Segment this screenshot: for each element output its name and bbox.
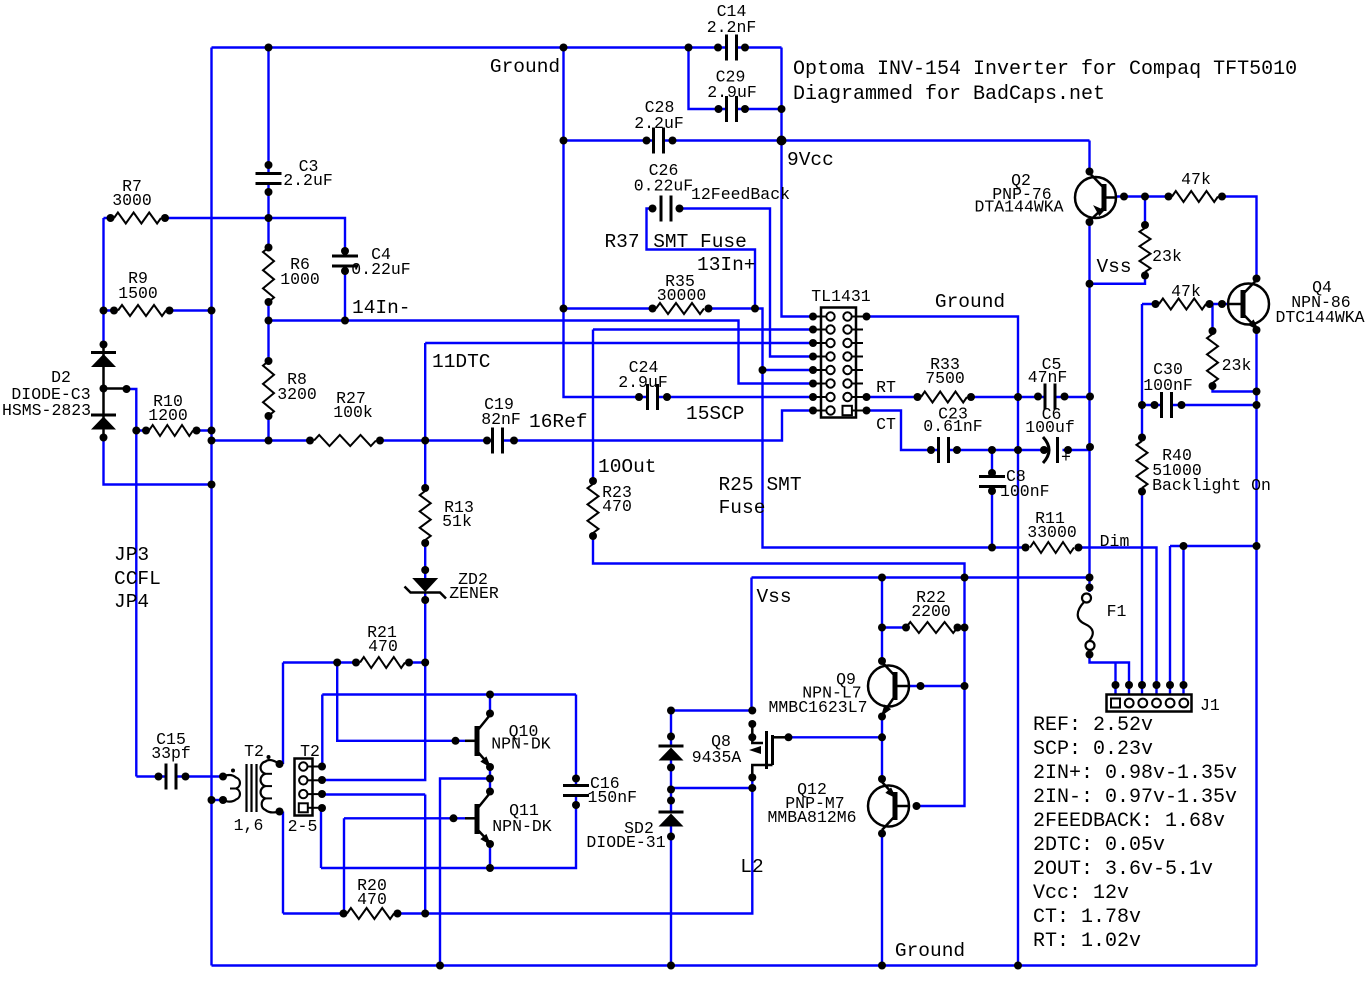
svg-text:2FEEDBACK: 1.68v: 2FEEDBACK: 1.68v (1033, 810, 1225, 833)
svg-text:2.9uF: 2.9uF (707, 83, 757, 102)
svg-text:2.2uF: 2.2uF (634, 114, 684, 133)
svg-text:Vcc: 12v: Vcc: 12v (1033, 882, 1129, 905)
svg-text:HSMS-2823: HSMS-2823 (2, 401, 91, 420)
svg-text:3000: 3000 (112, 191, 152, 210)
svg-text:9435A: 9435A (692, 748, 742, 767)
svg-text:Backlight On: Backlight On (1152, 476, 1271, 495)
svg-text:10Out: 10Out (598, 456, 657, 478)
svg-text:47nF: 47nF (1028, 368, 1068, 387)
svg-text:11DTC: 11DTC (432, 351, 491, 373)
svg-text:CCFL: CCFL (114, 568, 161, 590)
svg-text:2.2uF: 2.2uF (283, 171, 333, 190)
svg-text:2-5: 2-5 (288, 817, 318, 836)
svg-text:23k: 23k (1222, 356, 1252, 375)
svg-text:470: 470 (357, 890, 387, 909)
svg-text:Vss: Vss (1096, 256, 1131, 278)
svg-text:J1: J1 (1200, 696, 1220, 715)
svg-text:T2: T2 (244, 742, 264, 761)
svg-text:Vss: Vss (756, 586, 791, 608)
svg-text:RT: 1.02v: RT: 1.02v (1033, 930, 1141, 953)
svg-text:ZENER: ZENER (449, 584, 499, 603)
svg-text:12FeedBack: 12FeedBack (691, 185, 790, 204)
svg-text:SMT Fuse: SMT Fuse (653, 231, 747, 253)
svg-text:30000: 30000 (657, 286, 707, 305)
svg-text:2OUT: 3.6v-5.1v: 2OUT: 3.6v-5.1v (1033, 858, 1213, 881)
svg-text:SCP: 0.23v: SCP: 0.23v (1033, 738, 1153, 761)
svg-text:33pf: 33pf (151, 744, 191, 763)
svg-text:L2: L2 (740, 856, 763, 878)
svg-text:14In-: 14In- (352, 297, 411, 319)
svg-text:100k: 100k (333, 403, 373, 422)
svg-text:Fuse: Fuse (719, 497, 766, 519)
svg-text:Dim: Dim (1100, 532, 1130, 551)
svg-text:2.9uF: 2.9uF (618, 373, 668, 392)
svg-text:NPN-DK: NPN-DK (492, 817, 552, 836)
svg-text:470: 470 (602, 497, 632, 516)
svg-text:470: 470 (368, 637, 398, 656)
svg-text:REF: 2.52v: REF: 2.52v (1033, 714, 1153, 737)
svg-text:RT: RT (876, 378, 896, 397)
svg-text:15SCP: 15SCP (686, 403, 745, 425)
svg-text:100uf: 100uf (1025, 418, 1075, 437)
svg-text:2IN-: 0.97v-1.35v: 2IN-: 0.97v-1.35v (1033, 786, 1237, 809)
svg-text:1500: 1500 (118, 284, 158, 303)
svg-text:Ground: Ground (895, 940, 965, 962)
svg-text:MMBC1623L7: MMBC1623L7 (768, 698, 867, 717)
svg-text:+: + (1061, 448, 1071, 467)
svg-text:TL1431: TL1431 (811, 287, 871, 306)
svg-text:CT: CT (876, 415, 896, 434)
svg-text:DIODE-31: DIODE-31 (586, 833, 665, 852)
svg-text:Optoma INV-154 Inverter for Co: Optoma INV-154 Inverter for Compaq TFT50… (793, 58, 1297, 81)
svg-text:100nF: 100nF (1143, 376, 1193, 395)
svg-text:DTC144WKA: DTC144WKA (1275, 308, 1364, 327)
svg-text:47k: 47k (1171, 282, 1201, 301)
svg-text:SMT: SMT (766, 474, 801, 496)
svg-text:33000: 33000 (1027, 523, 1077, 542)
svg-text:3200: 3200 (277, 385, 317, 404)
svg-text:1000: 1000 (280, 270, 320, 289)
svg-text:1,6: 1,6 (234, 816, 264, 835)
svg-text:16Ref: 16Ref (529, 411, 588, 433)
svg-text:JP4: JP4 (114, 591, 149, 613)
svg-text:9Vcc: 9Vcc (787, 149, 834, 171)
svg-text:100nF: 100nF (1000, 482, 1050, 501)
svg-text:R37: R37 (604, 231, 639, 253)
svg-text:Ground: Ground (490, 56, 560, 78)
svg-text:2IN+: 0.98v-1.35v: 2IN+: 0.98v-1.35v (1033, 762, 1237, 785)
svg-text:7500: 7500 (925, 369, 965, 388)
svg-text:23k: 23k (1152, 247, 1182, 266)
svg-text:150nF: 150nF (588, 788, 638, 807)
svg-text:T2: T2 (300, 742, 320, 761)
svg-text:DTA144WKA: DTA144WKA (974, 198, 1063, 217)
svg-text:NPN-DK: NPN-DK (491, 735, 551, 754)
svg-text:F1: F1 (1107, 602, 1127, 621)
svg-text:2.2nF: 2.2nF (707, 18, 757, 37)
svg-text:13In+: 13In+ (697, 254, 756, 276)
svg-text:Ground: Ground (935, 291, 1005, 313)
svg-text:51k: 51k (442, 512, 472, 531)
svg-text:2DTC: 0.05v: 2DTC: 0.05v (1033, 834, 1165, 857)
svg-text:R25: R25 (718, 474, 753, 496)
svg-text:0.22uF: 0.22uF (351, 260, 410, 279)
svg-text:JP3: JP3 (114, 544, 149, 566)
svg-text:2200: 2200 (911, 602, 951, 621)
svg-text:1200: 1200 (148, 406, 188, 425)
svg-text:Diagrammed for BadCaps.net: Diagrammed for BadCaps.net (793, 83, 1105, 106)
svg-text:82nF: 82nF (481, 410, 521, 429)
svg-text:0.22uF: 0.22uF (634, 177, 693, 196)
svg-text:MMBA812M6: MMBA812M6 (767, 808, 856, 827)
svg-text:0.61nF: 0.61nF (923, 417, 982, 436)
svg-text:CT: 1.78v: CT: 1.78v (1033, 906, 1141, 929)
svg-text:47k: 47k (1181, 170, 1211, 189)
